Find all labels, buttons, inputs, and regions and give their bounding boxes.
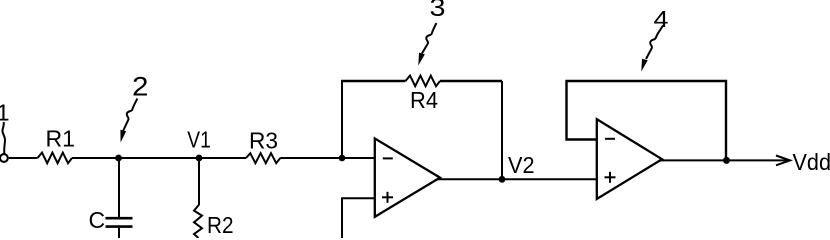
- svg-text:V2: V2: [508, 152, 535, 178]
- svg-text:R2: R2: [207, 212, 234, 238]
- svg-text:3: 3: [430, 0, 446, 22]
- svg-text:R3: R3: [249, 128, 278, 154]
- svg-text:R1: R1: [46, 126, 76, 152]
- svg-text:Vdd: Vdd: [793, 149, 830, 175]
- svg-text:R4: R4: [410, 87, 438, 113]
- svg-text:1: 1: [0, 100, 10, 126]
- svg-text:4: 4: [654, 6, 669, 32]
- svg-text:C: C: [89, 207, 106, 233]
- svg-text:V1: V1: [187, 126, 211, 152]
- svg-text:2: 2: [132, 72, 149, 102]
